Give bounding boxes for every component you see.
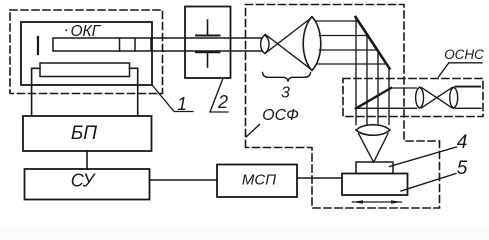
reflected ray top	[391, 87, 417, 89]
flash lamp	[40, 63, 130, 77]
vertical beam 2	[366, 35, 368, 125]
reflected ray bottom	[357, 107, 417, 109]
crossing ray a (small to big lens)	[266, 35, 313, 71]
brace for 3	[263, 73, 311, 82]
beam lower (rod to lens)	[152, 50, 262, 52]
prism mirror diagonal	[356, 17, 390, 69]
shutter electrode top stem	[207, 20, 209, 36]
sample 4	[356, 162, 393, 174]
output ray top	[456, 86, 481, 88]
vertical beam 3	[377, 51, 379, 125]
svg-text:3: 3	[281, 85, 290, 102]
lamp wire right	[130, 68, 138, 116]
svg-text:МСП: МСП	[242, 172, 276, 189]
SU box (control unit)	[25, 169, 150, 200]
svg-text:5: 5	[457, 158, 468, 179]
beamsplitter plate	[356, 88, 391, 108]
shutter plate top	[196, 35, 220, 37]
svg-text:СУ: СУ	[71, 171, 96, 191]
beam line 3 to prism	[320, 49, 378, 51]
svg-text:ОСФ: ОСФ	[262, 107, 299, 124]
stage 5	[342, 174, 408, 196]
leader label 5	[401, 174, 456, 192]
leader OSF	[247, 125, 260, 137]
beam line 2 to prism	[320, 35, 369, 37]
dashed enclosure OSNS	[343, 79, 483, 117]
vertical beam 4	[388, 68, 390, 125]
svg-text:ОСНС: ОСНС	[444, 47, 484, 62]
beam line 1 to prism	[316, 20, 359, 22]
shutter plate bottom	[196, 51, 220, 53]
laser rod	[53, 38, 151, 51]
vertical beam 1	[355, 18, 357, 125]
rod divider b	[134, 38, 136, 51]
rod divider a	[119, 38, 121, 51]
double arrow	[353, 200, 402, 204]
svg-text:БП: БП	[71, 123, 97, 144]
telescope lens 1	[416, 87, 424, 108]
focus cone left	[359, 134, 374, 163]
svg-text:2: 2	[217, 92, 228, 112]
dashed enclosure 1 (laser head)	[10, 10, 163, 94]
telescope lens 2	[450, 87, 458, 108]
svg-text:4: 4	[457, 132, 468, 153]
MSP box	[217, 165, 297, 198]
shutter box 2	[185, 7, 231, 79]
condenser lens	[356, 125, 390, 136]
BP-SU connector	[86, 151, 88, 169]
leader line label 1	[153, 86, 194, 112]
focus cone right	[374, 134, 388, 163]
svg-text:1: 1	[177, 94, 187, 114]
OKG box (laser unit)	[21, 22, 152, 85]
lamp wire left	[32, 68, 40, 116]
telescope crossing ray a	[422, 88, 453, 108]
telescope crossing ray b	[422, 88, 453, 108]
dashed enclosure OSF (big stepped polygon)	[246, 5, 440, 209]
collimator big lens 3	[303, 17, 321, 71]
beam line 4 to prism	[317, 63, 388, 65]
leader OSNS	[439, 63, 483, 77]
leader label 4	[390, 147, 457, 167]
rear mirror	[37, 37, 39, 54]
shutter electrode bottom stem	[207, 52, 209, 67]
collimator small lens	[261, 35, 269, 54]
wire SU to MSP	[150, 179, 218, 181]
crossing ray b (small to big lens)	[266, 17, 313, 53]
beam upper (rod to lens)	[152, 37, 262, 39]
leader line label 2	[210, 79, 228, 113]
BP box (power supply)	[23, 116, 152, 151]
wire MSP to stage	[297, 177, 342, 179]
output ray bottom	[456, 107, 482, 109]
